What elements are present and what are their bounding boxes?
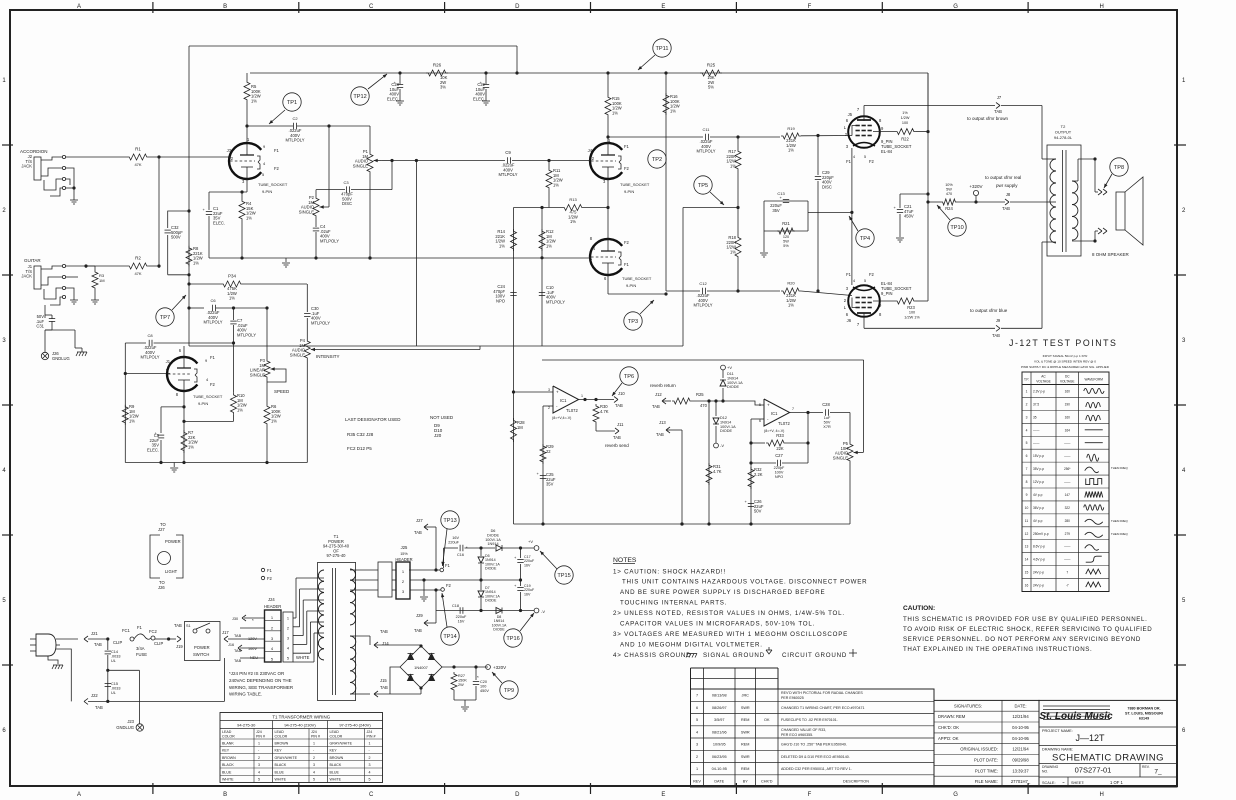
svg-text:WHITE: WHITE (222, 778, 234, 782)
svg-text:5: 5 (287, 656, 289, 661)
svg-text:C20: C20 (480, 680, 487, 684)
svg-text:F1: F1 (137, 625, 143, 630)
svg-text:15V p-p: 15V p-p (1033, 454, 1044, 458)
svg-text:4: 4 (1026, 428, 1028, 432)
svg-text:C9: C9 (505, 150, 511, 155)
svg-text:10: 10 (1025, 506, 1029, 510)
svg-text:CLIP: CLIP (113, 640, 122, 645)
svg-text:9: 9 (205, 358, 207, 363)
svg-text:GUITAR: GUITAR (24, 258, 41, 263)
svg-text:-7: -7 (1066, 584, 1069, 588)
svg-text:SWR: SWR (741, 706, 750, 710)
svg-text:+: + (556, 390, 559, 395)
svg-text:12/21/94: 12/21/94 (1012, 747, 1029, 752)
svg-text:160: 160 (1065, 415, 1071, 419)
svg-text:F2: F2 (267, 576, 273, 581)
svg-text:BLUE: BLUE (222, 770, 232, 774)
svg-text:F1: F1 (624, 144, 630, 149)
svg-text:BLACK: BLACK (222, 763, 234, 767)
svg-text:-V: -V (541, 609, 545, 614)
svg-text:TP2: TP2 (652, 157, 662, 163)
svg-text:HEADER: HEADER (395, 557, 412, 562)
svg-text:R25: R25 (696, 392, 704, 397)
svg-text:TAB: TAB (1002, 206, 1010, 211)
svg-text:3: 3 (696, 743, 698, 747)
svg-text:94-275-40 (230V): 94-275-40 (230V) (284, 723, 316, 728)
svg-text:08/26/97: 08/26/97 (712, 706, 727, 710)
svg-text:9-PIN: 9-PIN (262, 189, 272, 194)
svg-text:63149: 63149 (1139, 717, 1149, 721)
svg-text:SCHEMATIC DRAWING: SCHEMATIC DRAWING (1052, 753, 1164, 764)
svg-text:ST. LOUIS, MISSOURI: ST. LOUIS, MISSOURI (1125, 712, 1163, 716)
svg-text:R25: R25 (707, 63, 716, 68)
svg-text:MTLPOLY: MTLPOLY (546, 299, 565, 304)
svg-text:S1: S1 (186, 624, 191, 628)
svg-text:08/21/96: 08/21/96 (712, 730, 727, 734)
svg-text:DRAWING NAME:: DRAWING NAME: (1042, 748, 1073, 752)
svg-text:SINGLE: SINGLE (290, 352, 305, 357)
svg-text:TAB: TAB (234, 659, 242, 663)
svg-text:R1: R1 (135, 147, 141, 152)
svg-text:SPEED: SPEED (274, 389, 290, 394)
svg-text:1%: 1% (730, 163, 736, 168)
svg-text:F1: F1 (210, 355, 216, 360)
svg-text:150K: 150K (458, 678, 467, 682)
svg-text:DRAWING: DRAWING (1042, 765, 1059, 769)
svg-text:F: F (808, 4, 812, 10)
svg-text:15: 15 (1025, 571, 1029, 575)
svg-text:FC2: FC2 (149, 629, 158, 634)
svg-text:F1: F1 (274, 148, 280, 153)
svg-text:470: 470 (946, 192, 952, 196)
svg-text:——: —— (1064, 558, 1071, 562)
svg-text:ACCORDION: ACCORDION (20, 149, 48, 154)
svg-text:TAB: TAB (652, 404, 660, 409)
svg-text:CAPACITOR VALUES IN MICROFARAD: CAPACITOR VALUES IN MICROFARADS, 50V-10%… (620, 621, 815, 628)
svg-text:VOL & TONE @ 10 SPEED INTEN RE: VOL & TONE @ 10 SPEED INTEN REV @ 0 (1034, 360, 1096, 364)
svg-text:J29: J29 (416, 613, 423, 618)
svg-text:TAB: TAB (613, 435, 621, 440)
svg-text:TP16: TP16 (506, 636, 519, 642)
svg-text:4.7K: 4.7K (600, 409, 609, 414)
svg-text:WHITE: WHITE (296, 655, 310, 660)
svg-text:3: 3 (258, 763, 260, 767)
svg-text:CHK'D: CHK'D (761, 779, 773, 783)
svg-text:8.6V p-p: 8.6V p-p (1033, 545, 1045, 549)
svg-text:G: G (953, 792, 958, 798)
svg-text:to output xfmr real: to output xfmr real (985, 175, 1021, 180)
svg-text:F2: F2 (869, 272, 875, 277)
svg-text:C8: C8 (147, 333, 153, 338)
svg-text:4: 4 (853, 155, 855, 159)
svg-text:NOTES: NOTES (613, 557, 637, 564)
svg-text:ELEC.: ELEC. (147, 447, 159, 452)
svg-text:D11: D11 (727, 372, 734, 376)
svg-text:THEN FREQ: THEN FREQ (1111, 532, 1128, 536)
svg-text:WHITE: WHITE (275, 778, 287, 782)
svg-text:3: 3 (287, 636, 289, 641)
svg-text:35V: 35V (772, 208, 780, 213)
svg-text:12/21/94: 12/21/94 (1012, 714, 1029, 719)
svg-text:94-278-0L: 94-278-0L (1054, 135, 1073, 140)
svg-text:SINGLE: SINGLE (353, 163, 368, 168)
svg-text:C18: C18 (452, 604, 459, 608)
svg-text:G: G (953, 4, 958, 10)
svg-text:TOUCHING INTERNAL PARTS.: TOUCHING INTERNAL PARTS. (620, 600, 727, 607)
svg-text:NOT USED: NOT USED (430, 415, 454, 420)
svg-text:CLIP: CLIP (154, 641, 163, 646)
svg-text:REM: REM (741, 718, 749, 722)
svg-text:REV: REV (693, 779, 701, 783)
svg-text:280: 280 (1065, 519, 1071, 523)
svg-text:22: 22 (546, 449, 551, 454)
svg-text:PWR SUPPLY DC & RIPPLE MEASURE: PWR SUPPLY DC & RIPPLE MEASURED w/NO SIG… (1021, 365, 1110, 369)
svg-text:(8=+V,4=-V): (8=+V,4=-V) (552, 416, 571, 420)
svg-text:.0033: .0033 (111, 686, 121, 690)
svg-text:F: F (808, 792, 812, 798)
svg-text:J21: J21 (91, 631, 98, 636)
svg-text:——: —— (1064, 545, 1071, 549)
svg-text:E: E (661, 792, 665, 798)
svg-text:CIRCUIT GROUND: CIRCUIT GROUND (782, 652, 847, 659)
svg-text:12V p-p: 12V p-p (1033, 480, 1044, 484)
svg-text:16: 16 (1025, 584, 1029, 588)
svg-text:1: 1 (369, 741, 371, 745)
svg-text:120V: 120V (248, 637, 257, 641)
svg-text:35V p-p: 35V p-p (1033, 467, 1044, 471)
svg-text:T2: T2 (1061, 124, 1066, 129)
svg-text:4: 4 (853, 279, 855, 283)
svg-text:12: 12 (1025, 532, 1029, 536)
svg-text:TP11: TP11 (656, 46, 669, 52)
svg-text:TP10: TP10 (950, 225, 963, 231)
svg-text:REV.: REV. (1142, 765, 1150, 769)
svg-text:J23: J23 (127, 719, 134, 724)
svg-text:WAVEFORM: WAVEFORM (1085, 378, 1104, 382)
svg-text:SWITCH: SWITCH (193, 652, 209, 657)
svg-text:R22: R22 (901, 137, 909, 142)
svg-text:J24: J24 (256, 730, 262, 734)
svg-text:9: 9 (1026, 493, 1028, 497)
svg-text:16V: 16V (524, 592, 531, 596)
svg-text:470: 470 (700, 403, 708, 408)
svg-text:J1: J1 (166, 359, 171, 364)
svg-text:1%: 1% (246, 215, 252, 220)
svg-text:SERVICE PERSONNEL. DO NOT PER: SERVICE PERSONNEL. DO NOT PERFORM ANY SE… (903, 636, 1141, 643)
svg-text:220uF: 220uF (456, 615, 467, 619)
svg-text:TP14: TP14 (443, 634, 456, 640)
svg-text:1%: 1% (546, 243, 552, 248)
svg-text:11: 11 (1025, 519, 1029, 523)
svg-text:1: 1 (1026, 389, 1028, 393)
svg-text:COLOR: COLOR (275, 735, 288, 739)
svg-text:IC1: IC1 (771, 411, 778, 416)
svg-text:04-10-95: 04-10-95 (1012, 736, 1029, 741)
svg-text:TUBE_SOCKET: TUBE_SOCKET (258, 182, 288, 187)
svg-text:5: 5 (258, 778, 260, 782)
svg-text:.0033: .0033 (111, 654, 121, 658)
svg-text:TO AVOID RISK OF ELECTRIC SHOC: TO AVOID RISK OF ELECTRIC SHOCK, REFER S… (903, 626, 1152, 633)
svg-text:C11: C11 (702, 127, 710, 132)
svg-text:KEY: KEY (330, 749, 338, 753)
svg-text:C16: C16 (457, 553, 464, 557)
svg-text:J5: J5 (848, 112, 853, 117)
svg-text:100: 100 (902, 121, 908, 125)
svg-text:240VAC DEPENDING ON THE: 240VAC DEPENDING ON THE (229, 678, 292, 683)
svg-text:B: B (223, 4, 227, 10)
svg-text:LEAD: LEAD (222, 730, 232, 734)
svg-text:F1: F1 (624, 262, 630, 267)
svg-text:LEAD: LEAD (275, 730, 285, 734)
svg-text:R21: R21 (782, 221, 790, 226)
svg-text:1%: 1% (188, 444, 194, 449)
svg-text:256*: 256* (1064, 467, 1071, 471)
svg-text:3/5/97: 3/5/97 (714, 718, 725, 722)
svg-text:MTLPOLY: MTLPOLY (311, 320, 330, 325)
svg-text:8: 8 (1026, 480, 1028, 484)
svg-text:1: 1 (313, 741, 315, 745)
svg-text:MTLPOLY: MTLPOLY (693, 303, 712, 308)
svg-text:TP7: TP7 (160, 315, 170, 321)
svg-text:1%: 1% (193, 260, 199, 265)
svg-text:AND BE SURE POWER SUPPLY IS DI: AND BE SURE POWER SUPPLY IS DISCHARGED B… (620, 589, 825, 596)
svg-text:450V: 450V (904, 214, 914, 219)
svg-text:4V p-p: 4V p-p (1033, 493, 1043, 497)
svg-text:TAB: TAB (994, 109, 1002, 114)
svg-text:MTLPOLY: MTLPOLY (498, 172, 517, 177)
svg-text:LAST DESIGNATOR USED: LAST DESIGNATOR USED (345, 417, 401, 422)
svg-text:R33: R33 (776, 433, 784, 438)
svg-text:100V: 100V (248, 647, 257, 651)
svg-text:4> CHASSIS GROUND: 4> CHASSIS GROUND (613, 652, 691, 659)
svg-text:BLACK: BLACK (330, 763, 342, 767)
svg-text:16V: 16V (524, 563, 531, 567)
svg-text:J24: J24 (311, 730, 317, 734)
svg-text:450V: 450V (480, 689, 489, 693)
svg-text:100V/.1A: 100V/.1A (727, 381, 743, 385)
svg-text:F2: F2 (869, 159, 875, 164)
svg-text:TAB: TAB (414, 628, 422, 633)
svg-text:R2: R2 (135, 256, 141, 261)
svg-text:SINGLE: SINGLE (299, 209, 314, 214)
svg-text:37.5: 37.5 (1033, 402, 1039, 406)
svg-text:5: 5 (864, 279, 866, 283)
svg-text:TAB: TAB (656, 432, 664, 437)
svg-text:F2: F2 (274, 166, 280, 171)
svg-text:JRC: JRC (742, 694, 750, 698)
svg-text:100V/.1A: 100V/.1A (720, 425, 736, 429)
svg-text:J8: J8 (1006, 192, 1011, 197)
svg-text:1uF: 1uF (824, 416, 831, 420)
svg-text:94-275-30: 94-275-30 (237, 723, 256, 728)
svg-text:DIODE: DIODE (487, 533, 499, 537)
svg-text:——: —— (1064, 454, 1071, 458)
svg-text:1N914: 1N914 (487, 542, 498, 546)
svg-text:THAT EXPLAINED IN THE OPERATIN: THAT EXPLAINED IN THE OPERATING INSTRUCT… (903, 646, 1092, 653)
svg-text:TP15: TP15 (557, 573, 570, 579)
svg-text:REM: REM (741, 767, 749, 771)
svg-text:BLUE: BLUE (275, 770, 285, 774)
svg-text:MTLPOLY: MTLPOLY (140, 355, 159, 360)
svg-text:to output xfmr blue: to output xfmr blue (970, 308, 1008, 313)
svg-text:NPO: NPO (496, 298, 506, 303)
svg-text:9-PIN: 9-PIN (624, 189, 634, 194)
svg-text:TP5: TP5 (698, 183, 708, 189)
svg-text:R13: R13 (569, 197, 577, 202)
svg-text:FILE NAME:: FILE NAME: (975, 779, 998, 784)
svg-text:7: 7 (1066, 571, 1068, 575)
svg-text:15%: 15% (400, 552, 408, 556)
svg-text:10%: 10% (945, 183, 953, 187)
svg-text:COLOR: COLOR (330, 735, 343, 739)
svg-text:THEN FREQ: THEN FREQ (1111, 519, 1128, 523)
svg-text:1N4007: 1N4007 (414, 665, 428, 670)
svg-text:KEY: KEY (222, 749, 230, 753)
svg-text:J3: J3 (227, 148, 232, 153)
svg-text:INTENSITY: INTENSITY (316, 354, 340, 359)
svg-text:MTLPOLY: MTLPOLY (285, 138, 304, 143)
svg-text:T.P.: T.P. (1024, 378, 1029, 382)
svg-text:GHG'D J10 TO .250" TAB PER E95: GHG'D J10 TO .250" TAB PER E950049. (781, 743, 847, 747)
svg-text:F2: F2 (624, 166, 630, 171)
svg-text:EL-84: EL-84 (881, 149, 893, 154)
svg-text:SIGNAL GROUND: SIGNAL GROUND (703, 652, 765, 659)
svg-text:BY: BY (743, 779, 749, 783)
svg-text:KEY: KEY (275, 749, 283, 753)
svg-text:47K: 47K (134, 162, 141, 167)
svg-text:H: H (1100, 792, 1104, 798)
svg-text:2: 2 (258, 756, 260, 760)
svg-text:1 OF 1: 1 OF 1 (1110, 780, 1123, 785)
svg-text:J—12T: J—12T (1075, 733, 1105, 743)
svg-text:TP6: TP6 (624, 374, 634, 380)
svg-text:3: 3 (369, 763, 371, 767)
svg-text:ELEC.: ELEC. (473, 96, 485, 101)
svg-text:J4: J4 (591, 246, 596, 251)
svg-text:DISC: DISC (342, 201, 352, 206)
svg-text:R20: R20 (787, 281, 795, 286)
svg-text:C14: C14 (111, 650, 118, 654)
svg-text:MTLPOLY: MTLPOLY (320, 238, 339, 243)
svg-text:R26: R26 (433, 63, 442, 68)
svg-text:GRAY/WHITE: GRAY/WHITE (330, 741, 353, 745)
svg-text:-V: -V (720, 443, 724, 448)
svg-text:R35 C32 J28: R35 C32 J28 (347, 432, 374, 437)
svg-text:190: 190 (1065, 402, 1071, 406)
svg-text:10/9/95: 10/9/95 (713, 743, 726, 747)
svg-text:D: D (515, 792, 520, 798)
svg-text:6: 6 (1026, 454, 1028, 458)
svg-text:~: ~ (1062, 780, 1065, 785)
svg-text:J4: J4 (588, 148, 593, 153)
svg-text:2: 2 (1026, 402, 1028, 406)
svg-text:1%: 1% (902, 111, 908, 115)
svg-text:9-PIN: 9-PIN (198, 401, 208, 406)
svg-text:ADDED C32 PER E950011, ART TO: ADDED C32 PER E950011, ART TO REV 1. (781, 767, 852, 771)
svg-text:500V: 500V (171, 235, 181, 240)
svg-text:DELETED D9 & D10 PER ECO #E950: DELETED D9 & D10 PER ECO #E950140. (781, 755, 850, 759)
svg-text:160: 160 (1065, 389, 1071, 393)
svg-text:1%: 1% (271, 418, 277, 423)
svg-text:J20: J20 (434, 433, 442, 438)
svg-text:——: —— (1064, 441, 1071, 445)
svg-text:5: 5 (1026, 441, 1028, 445)
svg-text:St. Louis Music: St. Louis Music (1039, 711, 1113, 722)
svg-text:22K: 22K (776, 446, 784, 451)
svg-text:DIODE: DIODE (485, 599, 497, 603)
svg-text:6: 6 (696, 706, 698, 710)
svg-text:1M: 1M (99, 278, 105, 283)
svg-text:NO.: NO. (1042, 770, 1048, 774)
svg-text:50V: 50V (824, 420, 831, 424)
svg-text:1> CAUTION: SHOCK HAZARD!!: 1> CAUTION: SHOCK HAZARD!! (613, 569, 726, 576)
svg-text:DIODE: DIODE (727, 385, 739, 389)
svg-text:X7R: X7R (823, 425, 831, 429)
svg-text:27701H7_: 27701H7_ (1011, 779, 1031, 784)
svg-text:J-12T TEST POINTS: J-12T TEST POINTS (1009, 338, 1117, 348)
svg-text:P34: P34 (228, 274, 237, 279)
svg-text:ELEC.: ELEC. (213, 220, 225, 225)
svg-text:13:39:37: 13:39:37 (1012, 768, 1029, 773)
svg-text:1N914: 1N914 (720, 420, 731, 424)
svg-text:IC1: IC1 (560, 398, 567, 403)
svg-text:ELEC.: ELEC. (387, 96, 399, 101)
svg-text:07S277-01: 07S277-01 (1075, 766, 1112, 775)
svg-text:9_PIN: 9_PIN (881, 291, 893, 296)
svg-text:09/29/98: 09/29/98 (1012, 758, 1029, 763)
svg-text:J24: J24 (367, 730, 373, 734)
svg-text:F1: F1 (846, 159, 852, 164)
svg-text:E: E (661, 4, 665, 10)
svg-text:4: 4 (696, 730, 698, 734)
svg-text:7880 BORMAN DR.: 7880 BORMAN DR. (1127, 707, 1160, 711)
svg-text:C28: C28 (822, 402, 830, 407)
svg-text:1%: 1% (237, 407, 243, 412)
svg-text:220pF: 220pF (774, 466, 785, 470)
svg-text:4: 4 (313, 770, 315, 774)
svg-text:FC2 D12 P5: FC2 D12 P5 (347, 446, 372, 451)
svg-text:*J24 PIN #2 IS 230VAC OR: *J24 PIN #2 IS 230VAC OR (229, 671, 285, 676)
svg-text:9-PIN: 9-PIN (626, 283, 636, 288)
svg-text:reverb send: reverb send (605, 443, 629, 448)
svg-text:120: 120 (783, 235, 789, 239)
svg-text:WHITE: WHITE (330, 778, 342, 782)
svg-text:*: * (252, 618, 254, 623)
svg-text:MTLPOLY: MTLPOLY (203, 320, 222, 325)
svg-text:97-275-40 (240V): 97-275-40 (240V) (339, 723, 371, 728)
svg-text:C12: C12 (699, 281, 707, 286)
svg-text:GRAY/WHITE: GRAY/WHITE (275, 756, 298, 760)
svg-text:47K: 47K (134, 271, 141, 276)
svg-text:FUSECLIPS TO -02 PER E970101.: FUSECLIPS TO -02 PER E970101. (781, 718, 838, 722)
svg-text:97-275-40: 97-275-40 (327, 553, 347, 558)
svg-text:UL: UL (111, 659, 116, 663)
svg-text:TL072: TL072 (566, 408, 578, 413)
svg-text:TUBE_SOCKET: TUBE_SOCKET (193, 394, 223, 399)
svg-text:04-10-95: 04-10-95 (712, 767, 727, 771)
svg-text:TAB: TAB (234, 634, 242, 638)
svg-text:J6: J6 (847, 318, 852, 323)
svg-text:CHANGED VALUE OF R33,: CHANGED VALUE OF R33, (781, 728, 826, 732)
svg-text:SHEET:: SHEET: (1071, 781, 1084, 785)
svg-text:+: + (767, 403, 770, 408)
svg-text:CAUTION:: CAUTION: (903, 605, 935, 612)
svg-text:D: D (515, 4, 520, 10)
svg-text:BROWN: BROWN (222, 756, 236, 760)
svg-text:1%: 1% (788, 148, 794, 153)
svg-text:8 OHM SPEAKER: 8 OHM SPEAKER (1092, 252, 1130, 257)
svg-text:BLACK: BLACK (275, 763, 287, 767)
